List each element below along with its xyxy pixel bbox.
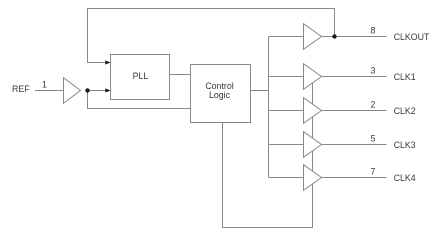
- input buffer (REF): [64, 78, 81, 104]
- wire: distribution bus vertical: [268, 37, 270, 178]
- svg-text:5: 5: [371, 134, 376, 144]
- wire: CLK3 output: [322, 144, 387, 146]
- svg-text:8: 8: [371, 26, 376, 36]
- svg-text:REF: REF: [12, 84, 30, 94]
- svg-text:2: 2: [371, 100, 376, 110]
- wire: REF input: [35, 90, 64, 92]
- wire: node down to lower rail into Control Logic: [88, 91, 191, 109]
- output buffer CLK1: [304, 64, 322, 90]
- svg-text:CLK2: CLK2: [394, 106, 416, 116]
- wire: node to PLL lower (reference) input: [88, 90, 107, 92]
- output buffer CLKOUT: [304, 24, 322, 50]
- svg-text:CLK1: CLK1: [394, 72, 416, 82]
- wire: CLK1 output: [322, 76, 387, 78]
- svg-text:PLL: PLL: [133, 71, 149, 81]
- svg-text:1: 1: [42, 80, 47, 90]
- output buffer CLK3: [304, 132, 322, 158]
- Control Logic block: [191, 65, 251, 123]
- svg-text:CLKOUT: CLKOUT: [394, 32, 430, 42]
- wire: bus stub to CLK1 buffer: [269, 76, 304, 78]
- arrowhead into PLL lower (reference) input: [105, 88, 110, 92]
- svg-text:Logic: Logic: [209, 90, 231, 100]
- arrowhead into PLL upper (feedback) input: [105, 60, 110, 64]
- svg-text:3: 3: [371, 66, 376, 76]
- wire: bus stub to CLK2 buffer: [269, 110, 304, 112]
- node: junction dot at CLKOUT output / feedback tap: [332, 34, 336, 38]
- wire: CLK2 output: [322, 110, 387, 112]
- wire: CLKOUT output: [322, 36, 387, 38]
- output buffer CLK4: [304, 165, 322, 191]
- PLL block: [111, 55, 170, 100]
- wire: Control Logic bottom output, bottom rail, vertical rising behind output buffers: [223, 80, 313, 228]
- output buffer CLK2: [304, 98, 322, 124]
- wire: feedback top rail from CLKOUT node to PLL upper input: [88, 9, 335, 63]
- svg-text:7: 7: [371, 167, 376, 177]
- wire: CLK4 output: [322, 177, 387, 179]
- svg-text:CLK3: CLK3: [394, 140, 416, 150]
- wire: PLL output to Control Logic: [170, 74, 191, 76]
- wire: bus stub to CLK4 buffer: [269, 177, 304, 179]
- wire: bus stub to CLK3 buffer: [269, 144, 304, 146]
- wire: bus stub to CLKOUT buffer: [269, 36, 304, 38]
- svg-text:CLK4: CLK4: [394, 173, 416, 183]
- wire: Control Logic output to distribution bus: [251, 90, 269, 92]
- node: junction dot at REF buffer output: [85, 88, 89, 92]
